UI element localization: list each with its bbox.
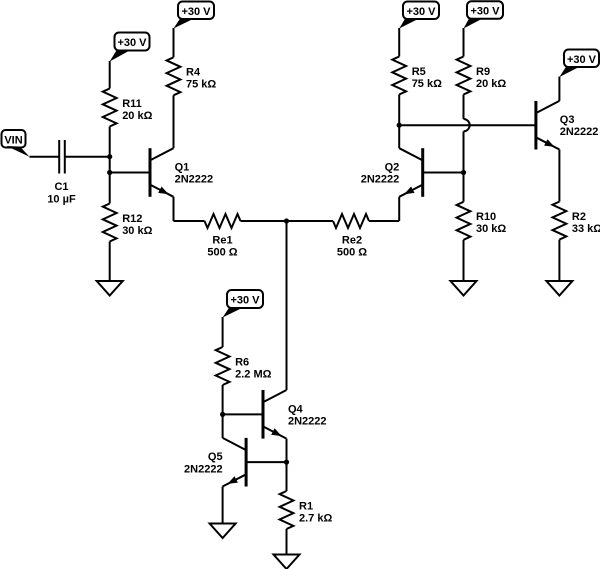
resistor R9 20 k&#937; bbox=[457, 57, 507, 95]
ground (R2) bbox=[546, 281, 572, 296]
ground (R12) bbox=[97, 281, 123, 296]
wire R10 to ground bbox=[463, 240, 465, 281]
wire R9 to hop bbox=[463, 95, 465, 120]
node E (R9/R10/Q2 base) (junction) bbox=[461, 170, 466, 175]
supply +30V (R4) bbox=[174, 2, 215, 29]
svg-text:C1: C1 bbox=[54, 181, 68, 193]
svg-text:VIN: VIN bbox=[4, 134, 22, 146]
svg-text:R1: R1 bbox=[299, 500, 313, 512]
svg-text:R4: R4 bbox=[186, 67, 201, 79]
wire Re2 to Q2 emitter bbox=[369, 220, 399, 222]
wire C1 to node A bbox=[65, 156, 110, 158]
svg-text:+30 V: +30 V bbox=[470, 6, 500, 18]
transistor Q3 2N2222 bbox=[536, 101, 598, 150]
node F (R6/Q4 base/Q5 collector) (junction) bbox=[220, 412, 225, 417]
ground (Q5) bbox=[210, 524, 236, 539]
wire Q4 emitter down bbox=[286, 439, 288, 463]
wire Q5 base to node G bbox=[246, 461, 286, 463]
node D (R5/Q2 collector/Q3 base) (junction) bbox=[397, 123, 402, 128]
wire Q2 emitter down bbox=[398, 197, 400, 221]
terminal VIN bbox=[2, 130, 30, 157]
wire +30V to R9 bbox=[463, 28, 465, 57]
svg-text:R9: R9 bbox=[476, 66, 490, 78]
transistor Q4 2N2222 bbox=[263, 390, 327, 439]
wire VIN to C1 bbox=[30, 156, 60, 158]
wire hop to R10 via node E bbox=[463, 131, 465, 201]
wire R11 to R12 via nodes A,B bbox=[109, 127, 111, 204]
svg-text:20 kΩ: 20 kΩ bbox=[122, 110, 152, 122]
svg-text:2N2222: 2N2222 bbox=[288, 416, 327, 428]
wire +30V to R5 bbox=[398, 28, 400, 57]
svg-text:R6: R6 bbox=[235, 356, 249, 368]
svg-text:Q3: Q3 bbox=[560, 114, 575, 126]
wire R5 to node D bbox=[398, 95, 400, 126]
svg-text:+30 V: +30 V bbox=[181, 6, 211, 18]
svg-text:2N2222: 2N2222 bbox=[560, 126, 599, 138]
node B (Q1 base junction) (junction) bbox=[107, 170, 112, 175]
resistor R2 33 k&#937; bbox=[553, 202, 600, 240]
wire +30V to R11 bbox=[109, 61, 111, 89]
wire R6 to node F bbox=[222, 385, 224, 414]
svg-text:R11: R11 bbox=[122, 98, 142, 110]
svg-text:2.2 MΩ: 2.2 MΩ bbox=[235, 368, 272, 380]
wire R1 to ground bbox=[286, 529, 288, 555]
svg-text:+30 V: +30 V bbox=[117, 37, 147, 49]
resistor R5 75 k&#937; bbox=[392, 57, 442, 95]
svg-text:500 Ω: 500 Ω bbox=[207, 247, 237, 259]
wire R12 to ground bbox=[109, 242, 111, 282]
resistor R10 30 k&#937; bbox=[457, 202, 507, 240]
ground (R1) bbox=[274, 555, 300, 569]
resistor R12 30 k&#937; bbox=[103, 204, 153, 242]
wire Q2 collector up bbox=[398, 125, 400, 148]
svg-text:Q2: Q2 bbox=[385, 161, 400, 173]
supply +30V (R11) bbox=[110, 33, 150, 62]
svg-text:+30 V: +30 V bbox=[567, 54, 597, 66]
supply +30V (Q3) bbox=[559, 50, 599, 78]
svg-text:R10: R10 bbox=[476, 211, 496, 223]
capacitor C1 10 µF bbox=[47, 140, 76, 206]
wire Q2 base to node E bbox=[423, 172, 464, 174]
wire R4 to Q1 collector bbox=[173, 95, 175, 148]
supply +30V (R5) bbox=[399, 2, 439, 29]
svg-text:+30 V: +30 V bbox=[230, 295, 260, 307]
resistor R1 2.7 k&#937; bbox=[280, 491, 333, 529]
wire node D to Q3 base bbox=[399, 124, 536, 126]
transistor Q2 2N2222 bbox=[361, 148, 423, 197]
svg-text:R12: R12 bbox=[122, 213, 142, 225]
svg-text:Re2: Re2 bbox=[342, 235, 362, 247]
transistor Q1 2N2222 bbox=[150, 148, 213, 197]
svg-text:30 kΩ: 30 kΩ bbox=[122, 225, 152, 237]
node A (C1/R11 junction) (junction) bbox=[107, 154, 112, 159]
resistor Re1 500 &#937; bbox=[205, 214, 241, 259]
wire +30V to R6 bbox=[222, 317, 224, 347]
svg-text:R2: R2 bbox=[572, 211, 586, 223]
resistor R11 20 k&#937; bbox=[103, 89, 153, 127]
svg-text:2N2222: 2N2222 bbox=[184, 463, 223, 475]
supply +30V (R9) bbox=[464, 1, 504, 28]
wire node F to Q5 collector bbox=[222, 414, 224, 438]
svg-text:Q4: Q4 bbox=[288, 403, 304, 415]
wire Q1 emitter down bbox=[173, 197, 175, 221]
svg-text:33 kΩ: 33 kΩ bbox=[572, 223, 600, 235]
svg-text:Re1: Re1 bbox=[212, 235, 232, 247]
svg-text:75 kΩ: 75 kΩ bbox=[412, 78, 442, 90]
wire +30V to Q3 collector bbox=[558, 77, 560, 101]
transistor Q5 2N2222 bbox=[184, 438, 246, 487]
svg-text:+30 V: +30 V bbox=[406, 6, 436, 18]
svg-text:2N2222: 2N2222 bbox=[361, 174, 400, 186]
resistor R6 2.2 M&#937; bbox=[216, 347, 272, 385]
wire Re1 to Re2 via node C bbox=[241, 220, 334, 222]
svg-text:R5: R5 bbox=[412, 66, 426, 78]
svg-text:75 kΩ: 75 kΩ bbox=[186, 79, 216, 91]
node C (Re1/Re2/Q4 junction) (junction) bbox=[284, 218, 289, 223]
wire R2 to ground bbox=[558, 240, 560, 281]
wire Q5 emitter to ground bbox=[222, 487, 224, 524]
svg-text:2.7 kΩ: 2.7 kΩ bbox=[299, 512, 332, 524]
wire hop (no-connect crossover on R9/R10 line) bbox=[464, 119, 470, 131]
svg-text:20 kΩ: 20 kΩ bbox=[476, 78, 506, 90]
ground (R10) bbox=[451, 281, 477, 296]
wire node F to Q4 base bbox=[223, 413, 263, 415]
resistor Re2 500 &#937; bbox=[333, 214, 369, 259]
svg-text:Q1: Q1 bbox=[175, 161, 190, 173]
supply +30V (R6) bbox=[223, 290, 263, 318]
svg-text:500 Ω: 500 Ω bbox=[337, 247, 367, 259]
wire Q3 emitter to R2 bbox=[558, 150, 560, 202]
wire node B to Q1 base bbox=[110, 172, 150, 174]
wire node C to Q4 collector bbox=[286, 221, 288, 390]
wire +30V to R4 bbox=[173, 28, 175, 57]
node G (Q4 emitter/Q5 base/R1) (junction) bbox=[284, 460, 289, 465]
wire node G to R1 bbox=[286, 462, 288, 491]
svg-text:30 kΩ: 30 kΩ bbox=[476, 223, 506, 235]
svg-text:10 µF: 10 µF bbox=[47, 194, 76, 206]
resistor R4 75 k&#937; bbox=[167, 57, 217, 95]
svg-text:2N2222: 2N2222 bbox=[175, 174, 214, 186]
svg-text:Q5: Q5 bbox=[208, 451, 223, 463]
wire Q1 emitter to Re1 bbox=[174, 220, 205, 222]
